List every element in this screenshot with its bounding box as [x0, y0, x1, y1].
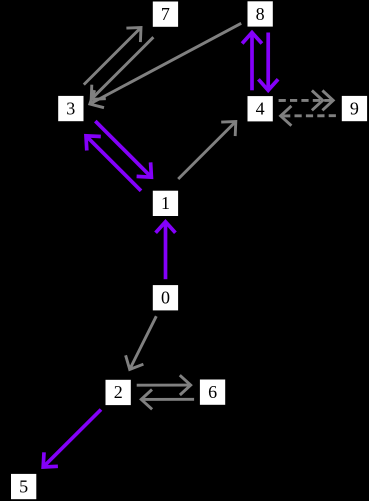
edge 8 to 4: [258, 33, 278, 91]
node 5: [11, 474, 36, 499]
node 7: [153, 2, 178, 27]
edge 7 to 3: [91, 37, 153, 99]
node 6: [200, 380, 225, 405]
edge 2 to 6: [137, 375, 191, 395]
edge 0 to 1: [156, 222, 176, 279]
svg-text:0: 0: [161, 288, 170, 308]
node 8: [248, 1, 273, 26]
edge 3 to 1: [95, 121, 151, 177]
node 9: [342, 96, 367, 121]
edge 4 to 8: [242, 33, 262, 91]
edge 8 to 3: [90, 23, 241, 107]
node 2: [106, 380, 131, 405]
svg-text:3: 3: [66, 98, 75, 118]
node 1: [153, 191, 178, 216]
svg-text:4: 4: [256, 99, 265, 119]
svg-text:9: 9: [350, 98, 359, 118]
node 3: [58, 96, 83, 121]
svg-text:6: 6: [208, 382, 217, 402]
edge 4 to 9: [279, 91, 334, 111]
edge 2 to 5: [43, 410, 101, 468]
svg-text:7: 7: [161, 4, 170, 24]
node 0: [153, 285, 178, 310]
node 4: [248, 96, 273, 121]
svg-text:5: 5: [19, 476, 28, 496]
svg-text:8: 8: [256, 4, 265, 24]
edge 3 to 7: [84, 28, 141, 85]
edge 9 to 4: [281, 106, 336, 126]
edge 1 to 3: [86, 136, 141, 191]
svg-text:2: 2: [114, 382, 123, 402]
edge 6 to 2: [141, 390, 194, 410]
svg-text:1: 1: [161, 193, 170, 213]
edge 0 to 2: [126, 316, 157, 369]
edge 1 to 4: [178, 122, 236, 180]
